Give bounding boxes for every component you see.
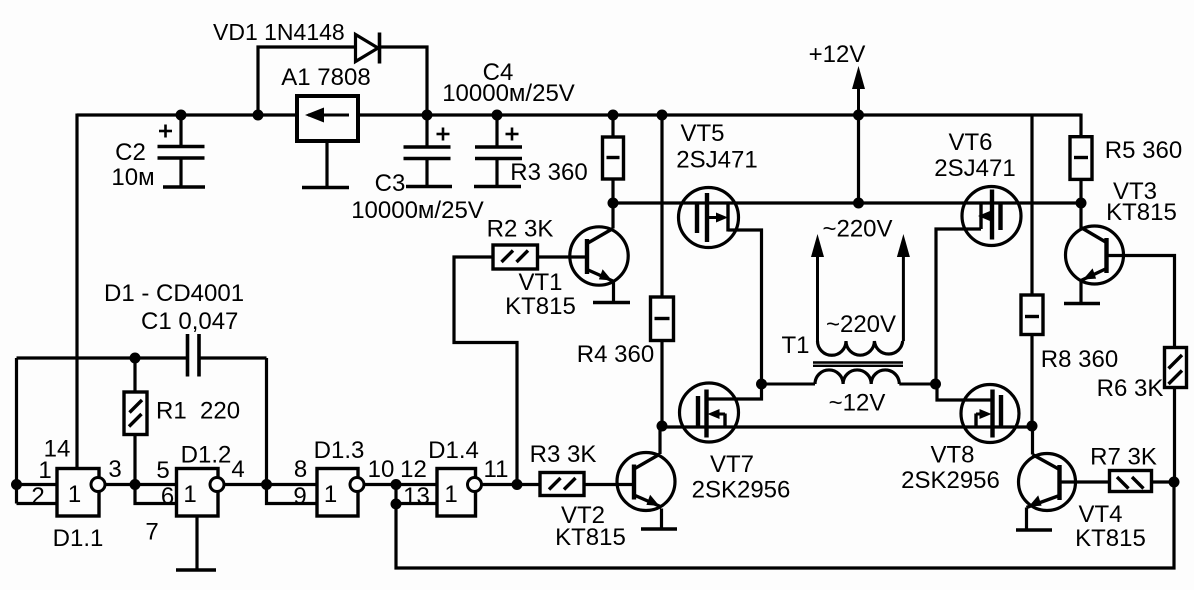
- wire: R8 360 stems: [1030, 115, 1033, 427]
- svg-text:KT815: KT815: [1075, 525, 1146, 552]
- svg-text:R6 3K: R6 3K: [1097, 375, 1164, 402]
- node: junction R4 bottom/VT2 collector/VT7 gate: [657, 421, 668, 432]
- wire: D1.4 pin 13 jog: [396, 485, 437, 504]
- wire: VT1 base wire from R2: [537, 255, 589, 258]
- svg-text:KT815: KT815: [555, 524, 626, 551]
- svg-text:~220V: ~220V: [822, 216, 892, 243]
- node: junction D1.1 pin1/feedback: [11, 479, 22, 490]
- wire: D1.3 pin 9 jog: [267, 485, 318, 504]
- resistor R7 3K: [1110, 471, 1152, 492]
- wire: +12V top rail: [77, 113, 1081, 116]
- svg-text:1: 1: [183, 481, 196, 508]
- svg-text:VT7: VT7: [710, 451, 754, 478]
- wire: VD1 branch left riser and top: [258, 47, 356, 115]
- svg-text:6: 6: [161, 483, 174, 510]
- svg-text:+12V: +12V: [809, 41, 866, 68]
- wire: VT3 emitter drop: [1079, 281, 1082, 304]
- wire: A1 ground stem: [325, 141, 328, 188]
- capacitor C1: [188, 334, 200, 377]
- svg-text:2: 2: [31, 483, 44, 510]
- svg-text:VD1 1N4148: VD1 1N4148: [213, 19, 345, 45]
- svg-text:1: 1: [38, 457, 51, 484]
- svg-text:1: 1: [324, 481, 337, 508]
- MOSFET VT6 2SJ471: [962, 187, 1021, 246]
- resistor R2 3K: [493, 245, 538, 269]
- wire: gate bus of VT5/VT6 (node at R3 bottom to R5 bottom): [613, 201, 1081, 204]
- wire: D1.4 pin 11 output: [482, 483, 518, 486]
- ground below VT3: [1064, 302, 1100, 306]
- svg-text:R2 3K: R2 3K: [487, 216, 554, 243]
- logic gate D1.1 (CD4001 NOR): [57, 469, 105, 517]
- wire: VT1 collector riser: [611, 203, 614, 229]
- svg-text:D1.4: D1.4: [428, 437, 479, 464]
- wire: VT3 base wire to R6: [1107, 256, 1175, 348]
- resistor R5 360: [1070, 137, 1092, 180]
- node: junction D1.4 pin13/bottom bus drop: [391, 499, 402, 510]
- capacitor C2: [158, 125, 205, 159]
- svg-text:1: 1: [444, 481, 457, 508]
- svg-text:~12V: ~12V: [829, 390, 886, 417]
- transistor VT1 KT815: [570, 227, 628, 285]
- wire: C4 stem: [495, 115, 498, 187]
- node: junction R3 bottom/VT1 collector/VT5 gate: [608, 198, 619, 209]
- logic gate D1.3 (CD4001 NOR): [317, 469, 364, 517]
- wire: VT2 emitter drop: [660, 509, 663, 530]
- svg-text:R4 360: R4 360: [577, 341, 654, 368]
- node: junction +12V arrow/rail: [853, 110, 864, 121]
- logic gate D1.2 (CD4001 NOR): [177, 469, 225, 517]
- node: junction R6 bottom/R7 right/bottom bus: [1169, 477, 1180, 488]
- node: junction R4/rail: [657, 110, 668, 121]
- wire: left drop from rail to D1.1 pin 14: [75, 114, 78, 469]
- node: junction VT5/VT7 drains at T1 secondary left: [756, 379, 767, 390]
- transistor VT3 KT815: [1066, 226, 1124, 284]
- wire: C2 stem: [179, 115, 182, 187]
- svg-text:D1.2: D1.2: [181, 442, 232, 469]
- svg-text:10000м/25V: 10000м/25V: [442, 80, 575, 107]
- node: junction R5 bottom/VT3 collector/VT6 gate: [1076, 198, 1087, 209]
- wire: D1.2 pin 7 ground stem: [195, 516, 198, 570]
- wire: R3 360 stems: [611, 115, 614, 203]
- svg-text:A1 7808: A1 7808: [281, 64, 370, 91]
- transformer T1 core: [813, 363, 903, 366]
- wire: R4 360 stems: [660, 115, 663, 427]
- regulator A1 7808: [297, 96, 358, 141]
- transistor VT4 KT815: [1019, 454, 1076, 511]
- node: junction C4/rail: [492, 110, 503, 121]
- wire: R5 360 stems: [1079, 114, 1082, 204]
- svg-text:C2: C2: [115, 139, 146, 166]
- svg-text:2SJ471: 2SJ471: [934, 155, 1015, 182]
- svg-text:9: 9: [293, 483, 306, 510]
- svg-text:13: 13: [403, 483, 430, 510]
- ground below C3: [406, 185, 452, 189]
- svg-text:VT4: VT4: [1078, 501, 1122, 528]
- resistor R1 220: [124, 392, 147, 435]
- node: junction VT6/VT8 drains at T1 secondary right: [930, 379, 941, 390]
- wire: C3 stem: [425, 115, 428, 187]
- node: junction R1 bottom/D1.1 out/D1.2 in: [130, 479, 141, 490]
- wire: VT3 collector riser: [1079, 203, 1082, 229]
- node: junction VD1/A1 input: [253, 110, 264, 121]
- svg-text:R5 360: R5 360: [1105, 137, 1182, 164]
- node: junction C2/rail: [176, 110, 187, 121]
- svg-text:KT815: KT815: [1106, 199, 1177, 226]
- node: junction D1.3 out/D1.4 in: [391, 479, 402, 490]
- ground below C4: [474, 185, 521, 189]
- wire: left feedback drop to D1.1 inputs: [15, 358, 18, 504]
- svg-text:R3 3K: R3 3K: [530, 441, 597, 468]
- wire: D1.2 output riser to C1: [265, 358, 268, 485]
- power symbol +12V arrow: [852, 66, 865, 115]
- svg-text:10м: 10м: [111, 164, 154, 191]
- wire: D1.3 pin 10 to D1.4 pin 12: [364, 483, 437, 486]
- svg-text:R1 220: R1 220: [156, 398, 240, 425]
- wire: R2 left zig-zag down to D1.4 output: [454, 257, 517, 485]
- logic gate D1.4 (CD4001 NOR): [437, 469, 482, 517]
- node: junction VD1/C3: [422, 110, 433, 121]
- wire: VT4 collector riser: [1031, 427, 1034, 455]
- wire: feedback line C1/R1 top: [17, 356, 267, 359]
- svg-text:~220V: ~220V: [826, 311, 896, 338]
- wire: VT1 emitter drop: [612, 281, 615, 303]
- svg-text:10000м/25V: 10000м/25V: [351, 197, 484, 224]
- node: junction R8 bottom/VT4 collector/VT8 gate: [1027, 421, 1038, 432]
- resistor R3 360: [603, 137, 624, 179]
- svg-text:D1.1: D1.1: [53, 525, 104, 552]
- node: junction R1 top/C1: [130, 353, 141, 364]
- diode VD1 1N4148: [356, 33, 380, 64]
- svg-text:KT815: KT815: [505, 293, 576, 320]
- svg-text:10: 10: [368, 456, 395, 483]
- wire: VT8 drain up to transformer node: [937, 384, 993, 400]
- svg-text:D1 - CD4001: D1 - CD4001: [104, 280, 244, 307]
- svg-text:5: 5: [156, 457, 169, 484]
- wire: D1.2 pin 4 to D1.3 pin 8: [224, 483, 317, 486]
- svg-text:D1.3: D1.3: [314, 437, 365, 464]
- wire: VT6 drain down to transformer node: [936, 229, 981, 384]
- wire: R6 bottom stem: [1173, 388, 1176, 483]
- capacitor C3: [404, 128, 451, 159]
- resistor R4 360: [651, 297, 674, 341]
- node: junction D1.2 out/D1.3 in/C1 riser: [261, 479, 272, 490]
- svg-text:VT1: VT1: [518, 269, 562, 296]
- svg-text:12: 12: [400, 456, 427, 483]
- svg-text:2SJ471: 2SJ471: [676, 147, 757, 174]
- wire: D1.1 pin 3 to D1.2 pin 5: [105, 483, 177, 486]
- resistor R8 360: [1021, 295, 1043, 335]
- svg-text:8: 8: [294, 456, 307, 483]
- wire: gate bus of VT7/VT8 (node below R4 to node below R8): [662, 425, 1032, 428]
- svg-text:7: 7: [145, 519, 158, 546]
- wire: R7 wires: [1060, 480, 1175, 483]
- resistor R3 3K (second R3): [540, 473, 584, 496]
- ground below VT1: [593, 301, 630, 305]
- capacitor C4: [475, 128, 522, 159]
- svg-text:R3 360: R3 360: [510, 159, 587, 186]
- svg-text:R7 3K: R7 3K: [1090, 444, 1157, 471]
- svg-text:1: 1: [68, 481, 81, 508]
- MOSFET VT7 2SK2956: [680, 383, 739, 442]
- wire: VT2 collector riser: [658, 427, 661, 454]
- transformer T1 secondary winding ~12V: [762, 370, 936, 384]
- svg-text:11: 11: [484, 456, 509, 483]
- ground below VT4: [1016, 528, 1052, 532]
- wire: VT7 drain up to transformer node: [707, 384, 762, 399]
- svg-text:2SK2956: 2SK2956: [901, 467, 1000, 494]
- svg-text:VT8: VT8: [930, 442, 974, 469]
- ground below C2: [163, 185, 205, 189]
- wire: D1.2 pin 6 jog: [135, 485, 177, 504]
- MOSFET VT5 2SJ471: [679, 188, 739, 248]
- wire: D1.1 pin 1 input: [17, 483, 58, 486]
- wire: VT5 drain down to transformer node: [728, 230, 762, 384]
- wire: VD1 branch right segment and drop: [380, 47, 428, 115]
- svg-text:2SK2956: 2SK2956: [692, 477, 791, 504]
- svg-text:VT5: VT5: [680, 120, 724, 147]
- MOSFET VT8 2SK2956: [961, 385, 1019, 443]
- resistor R6 3K: [1165, 348, 1187, 388]
- ground below A1: [302, 186, 349, 190]
- ground below VT2: [641, 527, 677, 531]
- node: junction +12V/source bus: [853, 198, 864, 209]
- ground below D1.2 pin 7: [176, 568, 216, 572]
- svg-text:C1 0,047: C1 0,047: [141, 308, 238, 335]
- svg-text:4: 4: [231, 456, 244, 483]
- svg-text:C3: C3: [375, 170, 406, 197]
- wire: R3 3K wires: [517, 483, 634, 486]
- node: junction D1.4 out/R2 zigzag/R3 3K: [512, 479, 523, 490]
- transistor VT2 KT815: [617, 453, 675, 511]
- svg-text:3: 3: [108, 456, 121, 483]
- svg-text:VT6: VT6: [948, 129, 992, 156]
- transformer T1 primary winding ~220V: [811, 234, 910, 355]
- wire: bottom return bus: [396, 482, 1174, 568]
- svg-text:R8 360: R8 360: [1041, 346, 1118, 373]
- wire: R1 stems: [133, 358, 136, 485]
- wire: D1.1 pin 2 input: [17, 502, 58, 505]
- node: junction R3/rail: [608, 110, 619, 121]
- wire: VT4 emitter drop: [1025, 508, 1028, 531]
- wire: +12V drop from rail to source bus: [857, 115, 860, 203]
- svg-text:T1: T1: [781, 332, 809, 359]
